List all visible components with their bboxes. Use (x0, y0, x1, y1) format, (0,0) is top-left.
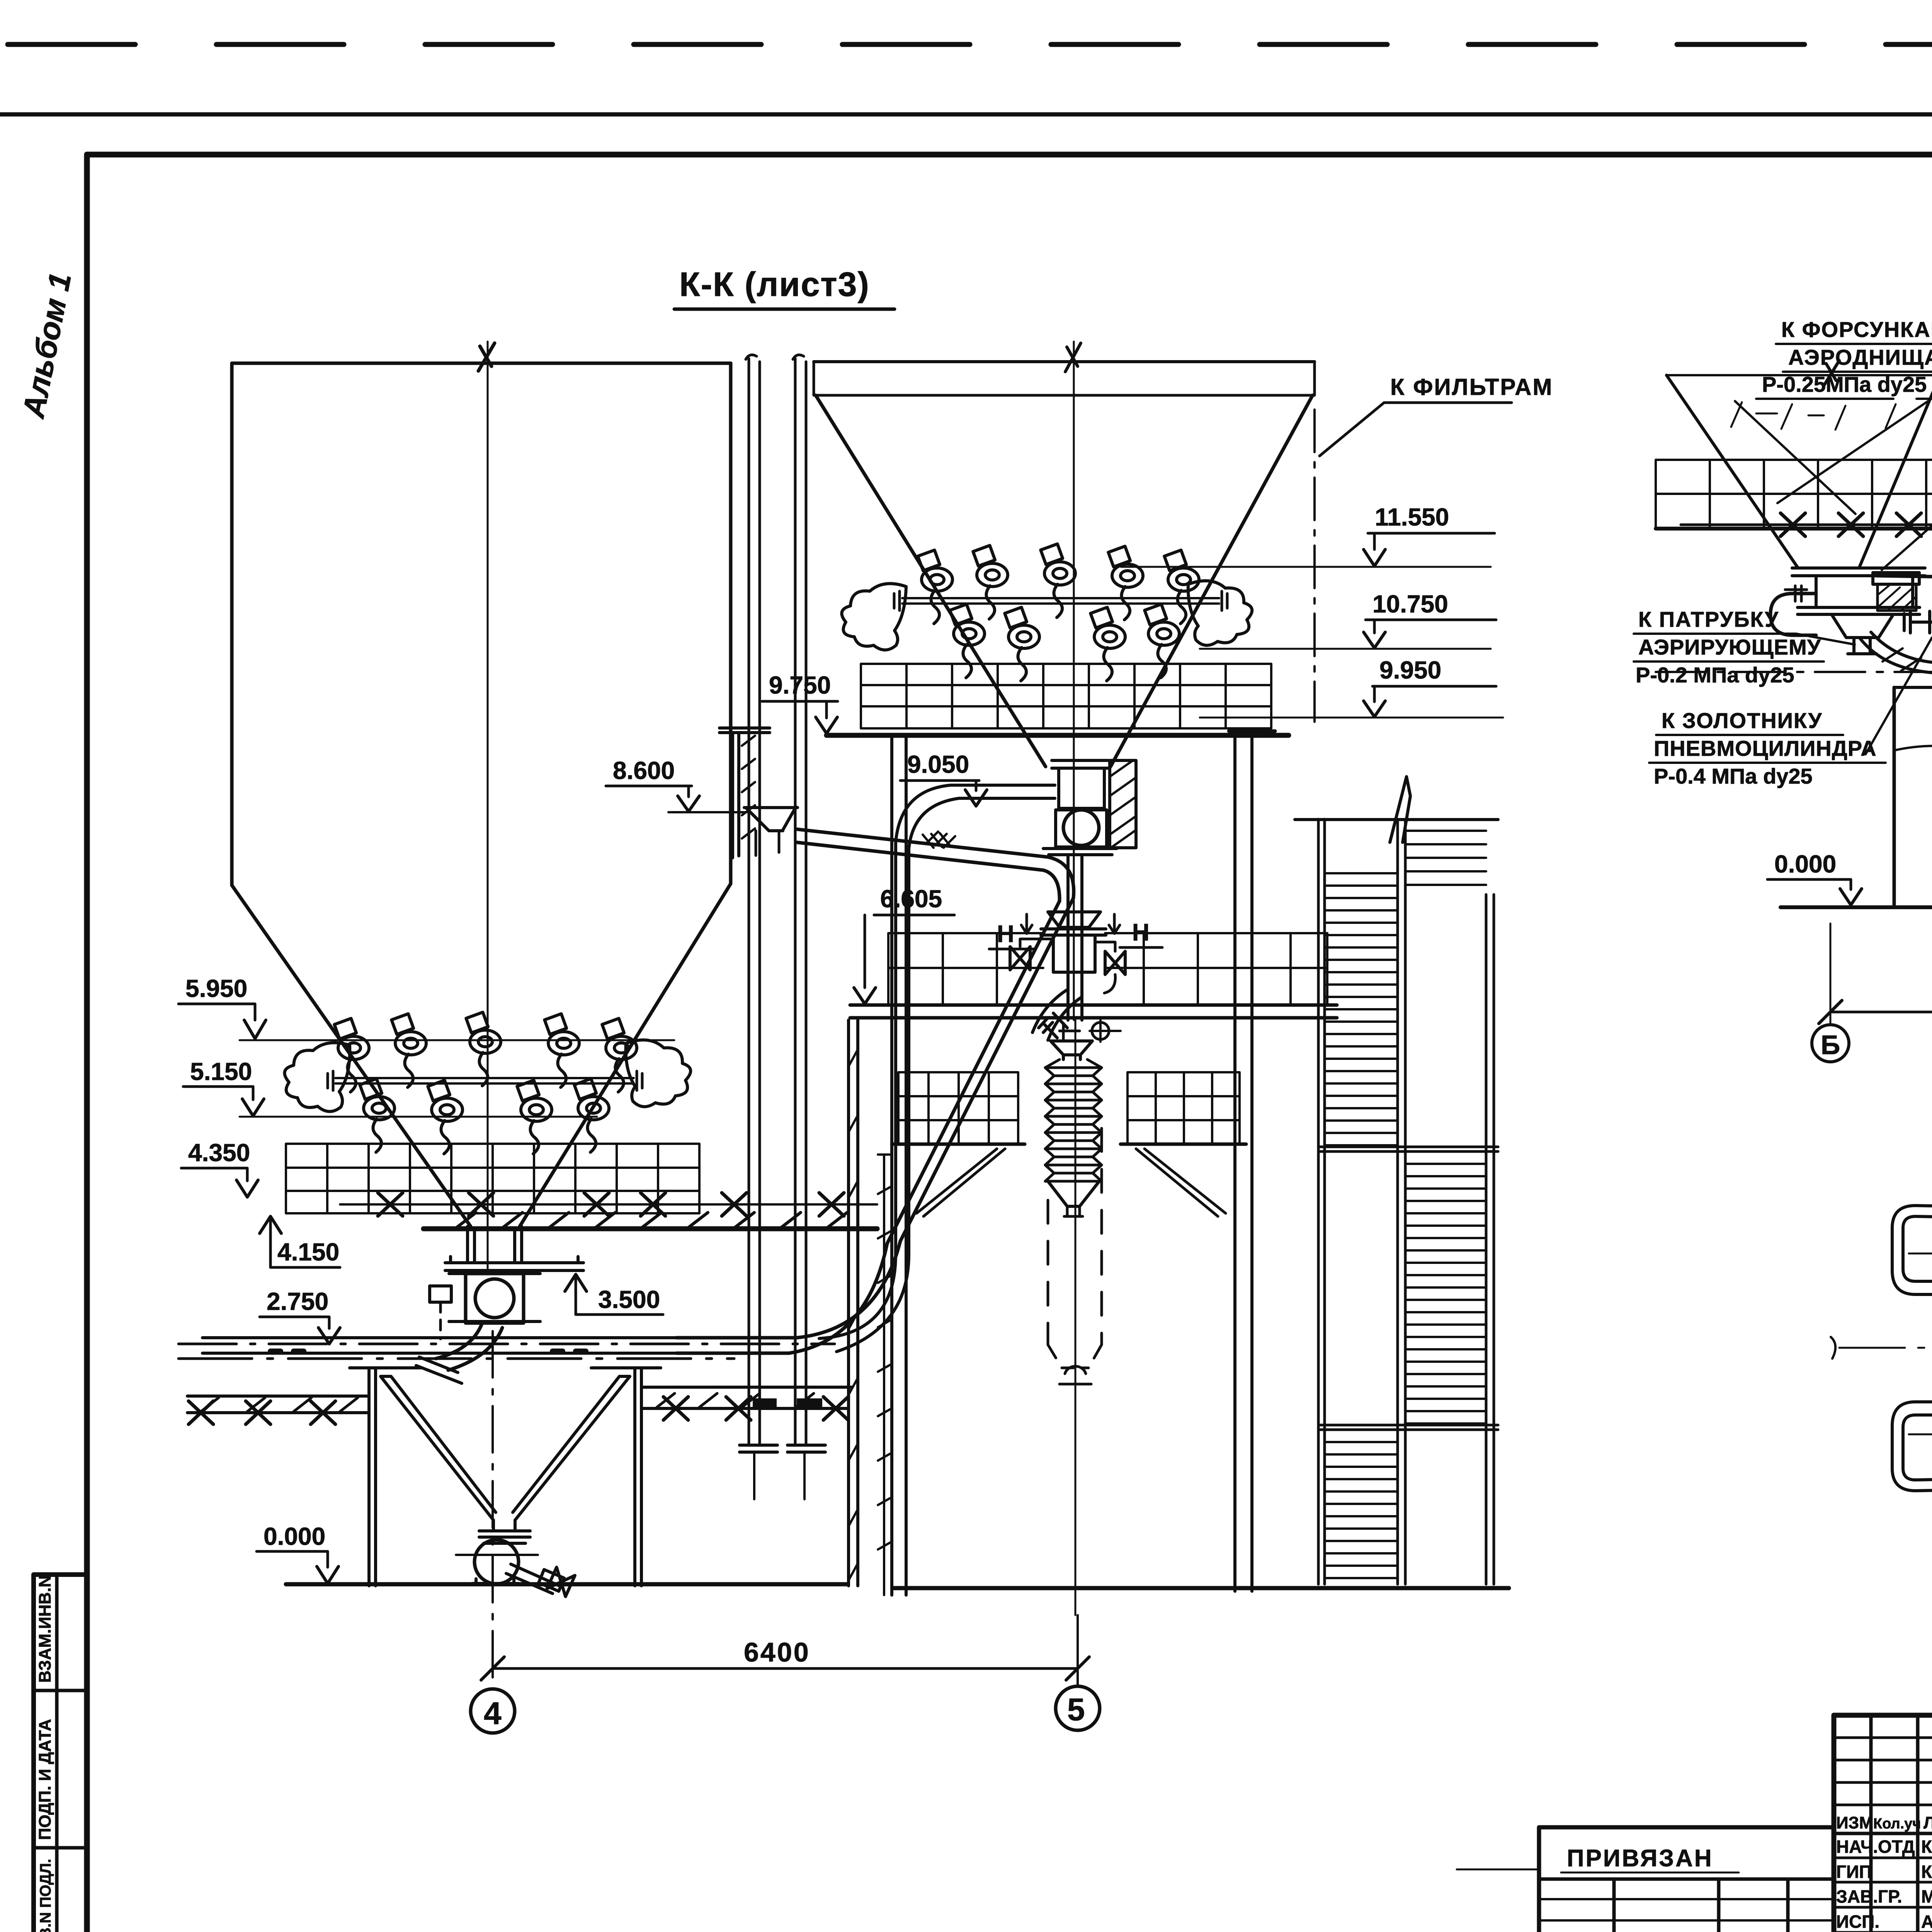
svg-text:Кол.уч: Кол.уч (1873, 1816, 1921, 1832)
name rows (1834, 1858, 1932, 1932)
svg-text:2.750: 2.750 (267, 1287, 328, 1315)
title block left edge (1832, 1715, 1837, 1932)
dimension line 6400 MM (1830, 1011, 1932, 1014)
nozzle row upper silo1 (334, 1019, 369, 1092)
bunker nozzle clouds (842, 583, 906, 650)
level line 5.150 (240, 1116, 597, 1118)
svg-text:АЭРИРУЮЩЕМУ: АЭРИРУЮЩЕМУ (1638, 635, 1821, 659)
left device U pipe (1770, 594, 1816, 635)
tower band 1 (1318, 1147, 1498, 1151)
receiving pit right wall (635, 1368, 641, 1586)
floor band 4.150 (423, 1226, 877, 1231)
centerline end breaks (1831, 1337, 1932, 1359)
aeration cloud left (284, 1043, 350, 1112)
axis line column 5 (1077, 1615, 1079, 1686)
svg-text:9.750: 9.750 (769, 671, 831, 699)
chute flange (445, 1257, 583, 1270)
unit side valve left (1010, 947, 1030, 970)
weigh feeder upper box (1059, 768, 1104, 808)
discharge chute silo1 (468, 1226, 522, 1263)
silo1 left wall (230, 363, 234, 885)
bunker manifold (902, 598, 1219, 604)
weigh feeder flange (1052, 760, 1108, 768)
svg-text:0.000: 0.000 (264, 1522, 325, 1550)
MM left hopper top edge (1667, 374, 1932, 376)
svg-text:К ПАТРУБКУ: К ПАТРУБКУ (1638, 607, 1779, 631)
building column left pair (892, 737, 906, 1595)
left discharge device flanges (1792, 568, 1925, 614)
basement top edges (1894, 686, 1932, 689)
valve V1 flange plates (449, 1274, 540, 1321)
frame left edge (84, 155, 90, 1932)
spout cone (1048, 1181, 1099, 1206)
pump air pipe left run (187, 1396, 367, 1413)
crosshatch mark on pipe (923, 832, 955, 848)
svg-text:ГИП: ГИП (1836, 1862, 1872, 1882)
svg-text:ПОДП. И ДАТА: ПОДП. И ДАТА (36, 1719, 54, 1840)
feeder valve disc (1063, 810, 1099, 845)
lower horizontal pipe run to left (202, 1338, 676, 1353)
outlet valve box (539, 1570, 564, 1591)
building column right pair (1235, 737, 1252, 1591)
svg-text:ВЗАМ.ИНВ.N: ВЗАМ.ИНВ.N (36, 1575, 54, 1683)
svg-text:6400: 6400 (744, 1637, 810, 1667)
junction sleeves on pipe (753, 1398, 777, 1408)
strip cell divider 2 (34, 1846, 87, 1850)
floor grid 6.605 (888, 933, 1327, 1005)
air header line under slabs with X marks (1681, 524, 1932, 526)
feeder lower flange (1043, 849, 1117, 855)
manifold pipe silo1 (335, 1078, 634, 1083)
silo1 hopper cone left slope (232, 885, 471, 1226)
riser pipes between silos (749, 359, 806, 1445)
material wavy line (1894, 746, 1932, 817)
left device funnel (1832, 614, 1893, 638)
column circle B (1812, 1025, 1849, 1062)
K-K title underline (674, 308, 895, 311)
MM ceiling slab left grid (1656, 460, 1932, 529)
chamber pump flange stack (479, 1531, 530, 1543)
blow pipe with ticks (1876, 576, 1932, 587)
top perforation dashed line (8, 42, 1932, 47)
level line 5.950 (240, 1039, 674, 1041)
ladder flight lower left (1325, 1442, 1398, 1578)
left device body (1816, 576, 1913, 607)
actuator dashed stem (439, 1302, 442, 1339)
pneumocylinder box left (1873, 573, 1919, 584)
spout top funnel below floor (1051, 1041, 1092, 1055)
svg-text:8.600: 8.600 (613, 757, 675, 784)
platform left edge band + brace (892, 1143, 1025, 1146)
dimension line 6400 KK (493, 1667, 1078, 1670)
left device bolts (1785, 586, 1807, 601)
H-H horizontal centerline dashdot (1839, 1347, 1932, 1349)
unit side valve right (1105, 951, 1125, 975)
walkway platform right 5.1 (1128, 1072, 1240, 1144)
floor slab band 6.605 (850, 1005, 1337, 1018)
label D leader (1796, 634, 1855, 645)
svg-text:10.750: 10.750 (1372, 590, 1448, 618)
slab bottom heavy lines (1656, 526, 1932, 529)
riser elbow flanges (740, 1445, 825, 1452)
bunker cone right slope (1111, 395, 1313, 767)
pipe elbow down (1043, 857, 1074, 901)
svg-text:КРАВЦОВ: КРАВЦОВ (1921, 1837, 1932, 1857)
svg-text:К ФОРСУНКАМ: К ФОРСУНКАМ (1781, 317, 1932, 342)
rail level pipe lines 2.750 (179, 1343, 835, 1345)
spout axis (1075, 1020, 1077, 1615)
svg-text:НАЧ.ОТД: НАЧ.ОТД (1836, 1837, 1915, 1857)
basement ground line (1781, 905, 1932, 909)
svg-text:4.350: 4.350 (188, 1139, 250, 1167)
aerated floor grid 4.350 (286, 1144, 699, 1213)
diagonal tick on drop (1883, 648, 1921, 671)
revision table verticals (1871, 1715, 1932, 1932)
top rule line (0, 112, 1932, 117)
column circle 5 (1056, 1686, 1100, 1730)
walkway platform left 5.1 (898, 1072, 1018, 1144)
pump outlet incline (506, 1564, 561, 1594)
pump base (472, 1579, 519, 1583)
bellows telescopic spout (1063, 1055, 1080, 1060)
svg-text:МОЛОТКОВА: МОЛОТКОВА (1921, 1886, 1932, 1906)
label E leader (1866, 638, 1932, 754)
left device foot (1848, 638, 1876, 654)
feeder housing (1056, 810, 1107, 847)
svg-text:4.150: 4.150 (277, 1238, 339, 1266)
riser pipe top hooks (746, 355, 804, 359)
ladder flight mid right (1405, 1164, 1486, 1423)
privyazan box (1539, 1827, 1834, 1932)
nozzle row lower silo1 (360, 1079, 395, 1152)
pit hopper funnel (381, 1376, 630, 1520)
svg-text:Б: Б (1821, 1030, 1840, 1060)
bunker floor line 9.750 (827, 733, 1289, 738)
svg-text:ПРИВЯЗАН: ПРИВЯЗАН (1567, 1845, 1713, 1872)
svg-text:5.150: 5.150 (190, 1058, 252, 1085)
stair tower rails (1318, 819, 1494, 1584)
pit top edges (350, 1366, 661, 1369)
svg-text:3.500: 3.500 (598, 1286, 660, 1313)
pipe bend to down leg (896, 785, 959, 849)
silo1 centerline with break mark (487, 342, 489, 1272)
manifold end flanges (328, 1071, 642, 1090)
under-floor transport pipe from feeder (951, 785, 1055, 798)
aeration cloud right (626, 1040, 691, 1107)
svg-text:К-К (лист3): К-К (лист3) (679, 265, 870, 303)
svg-text:4: 4 (484, 1696, 502, 1731)
drop pipe from feeder (1068, 855, 1082, 1020)
H-H unit horizontal thin lines (1909, 1253, 1932, 1434)
svg-text:9.950: 9.950 (1379, 656, 1441, 684)
hatched pit wall right of feeder (1110, 760, 1136, 848)
receiving pit left wall (369, 1368, 376, 1586)
ladder flight upper left (1325, 873, 1398, 1145)
bunker right reference dashdot (1313, 410, 1316, 722)
left hopper break mark (1825, 361, 1839, 384)
track dots (270, 1349, 586, 1354)
silo1 top edge (232, 362, 731, 365)
bunker rim (814, 362, 1315, 395)
hose end hatch fitting (416, 1357, 462, 1383)
label B leader (1882, 405, 1932, 570)
svg-text:11.550: 11.550 (1375, 503, 1449, 531)
stair top flag mark (1390, 777, 1410, 842)
flexible loading hose to car (436, 1323, 502, 1370)
silo1 right wall (729, 363, 733, 884)
left pipe drop to header (1859, 632, 1932, 673)
svg-text:Альбом 1: Альбом 1 (16, 270, 78, 421)
ground line 0.000 (286, 1584, 1509, 1588)
elbow arcs to incline (1032, 989, 1082, 1040)
svg-text:ИЗМ: ИЗМ (1836, 1813, 1873, 1832)
spout inlet stub 45deg (1039, 1013, 1067, 1038)
svg-text:К ЗОЛОТНИКУ: К ЗОЛОТНИКУ (1662, 708, 1822, 733)
column circle 4 (471, 1689, 515, 1733)
bunker centerline (1073, 342, 1075, 1020)
level line 11.550 (1121, 566, 1491, 568)
svg-text:ПНЕВМОЦИЛИНДРА: ПНЕВМОЦИЛИНДРА (1654, 736, 1877, 760)
left hopper hatch strokes (1731, 402, 1896, 430)
bunker top edge (814, 360, 1315, 363)
HH connecting unit at floor (1048, 912, 1100, 927)
svg-text:Р-0.2 МПа dy25: Р-0.2 МПа dy25 (1636, 663, 1794, 687)
strip middle vertical (55, 1575, 59, 1932)
floor band ticks (456, 1213, 847, 1228)
X marks on 4.150 pipe line (340, 1203, 877, 1206)
spout lowered position dashed (1048, 1128, 1102, 1345)
butterfly valve V1 housing (466, 1274, 524, 1323)
strip cell divider 1 (34, 1689, 87, 1692)
svg-text:9.050: 9.050 (907, 750, 969, 778)
svg-text:5: 5 (1067, 1692, 1085, 1727)
header axis dash-dot (1656, 671, 1932, 673)
level line 10.750 (1200, 648, 1491, 650)
level line 9.950 (1200, 717, 1503, 719)
valve actuator box (430, 1286, 451, 1302)
svg-text:6.605: 6.605 (880, 885, 942, 913)
frame top edge (87, 152, 1932, 158)
bunker cone left slope (816, 395, 1046, 767)
svg-text:ИСП.: ИСП. (1836, 1912, 1879, 1932)
chamber pump vessel (474, 1540, 519, 1584)
bunker nozzle row upper (918, 550, 952, 624)
hatched wall left of column (849, 1020, 858, 1586)
svg-text:ЗАВ.ГР.: ЗАВ.ГР. (1836, 1886, 1902, 1906)
svg-text:Лист: Лист (1923, 1813, 1932, 1832)
steep incline pipe down-left (887, 898, 1073, 1243)
svg-text:0.000: 0.000 (1774, 850, 1836, 878)
svg-text:АРУТЮНЯНЦ: АРУТЮНЯНЦ (1921, 1912, 1932, 1932)
spout hoist circle symbol (1092, 1022, 1109, 1039)
horizontal transport pipe to elbow (797, 829, 1048, 870)
svg-text:АЭРОДНИЩА: АЭРОДНИЩА (1788, 345, 1932, 369)
transport pipe from silo1: bracket on wall (733, 733, 739, 858)
pneumo valve flanges (1904, 611, 1932, 633)
silo1 outlet funnel at 8.600 (744, 807, 798, 831)
pump air pipe right run (641, 1387, 852, 1408)
valve V1 disc (475, 1279, 514, 1318)
axis line B col (1830, 923, 1832, 1023)
ladder flight top right (1405, 831, 1486, 885)
svg-text:К ФИЛЬТРАМ: К ФИЛЬТРАМ (1390, 374, 1553, 400)
revision rows top (1834, 1738, 1932, 1805)
bunker nozzle row lower (950, 604, 985, 678)
pipe down leg (896, 842, 909, 1254)
axis line column 4 (492, 1331, 494, 1689)
ticked support riser (878, 1155, 890, 1595)
hatched cylinder block (1878, 584, 1916, 611)
tower band 2 (1318, 1425, 1498, 1430)
svg-text:Р-0.4 МПа dy25: Р-0.4 МПа dy25 (1654, 764, 1813, 788)
label A leaders (1735, 401, 1928, 514)
silo1 hopper cone right slope (520, 884, 731, 1226)
MM left hopper slopes (1667, 375, 1932, 567)
strip outer border (34, 1575, 87, 1932)
incline to horizontal bend (676, 1241, 900, 1353)
stair tower top line (1295, 818, 1498, 821)
basement walls (1894, 687, 1932, 907)
svg-text:ИНВ.N ПОДЛ.: ИНВ.N ПОДЛ. (37, 1859, 54, 1932)
header row lines (1834, 1832, 1932, 1835)
aerated floor grid 9.950 (861, 664, 1271, 728)
pipe bottom bend merge (819, 1254, 909, 1352)
svg-text:КУЗНЕЦОВ: КУЗНЕЦОВ (1921, 1862, 1932, 1882)
pump axis line (456, 1554, 538, 1556)
title block outer top (1834, 1713, 1932, 1718)
svg-text:5.950: 5.950 (185, 975, 247, 1002)
funnel outlet neck (493, 1520, 515, 1531)
